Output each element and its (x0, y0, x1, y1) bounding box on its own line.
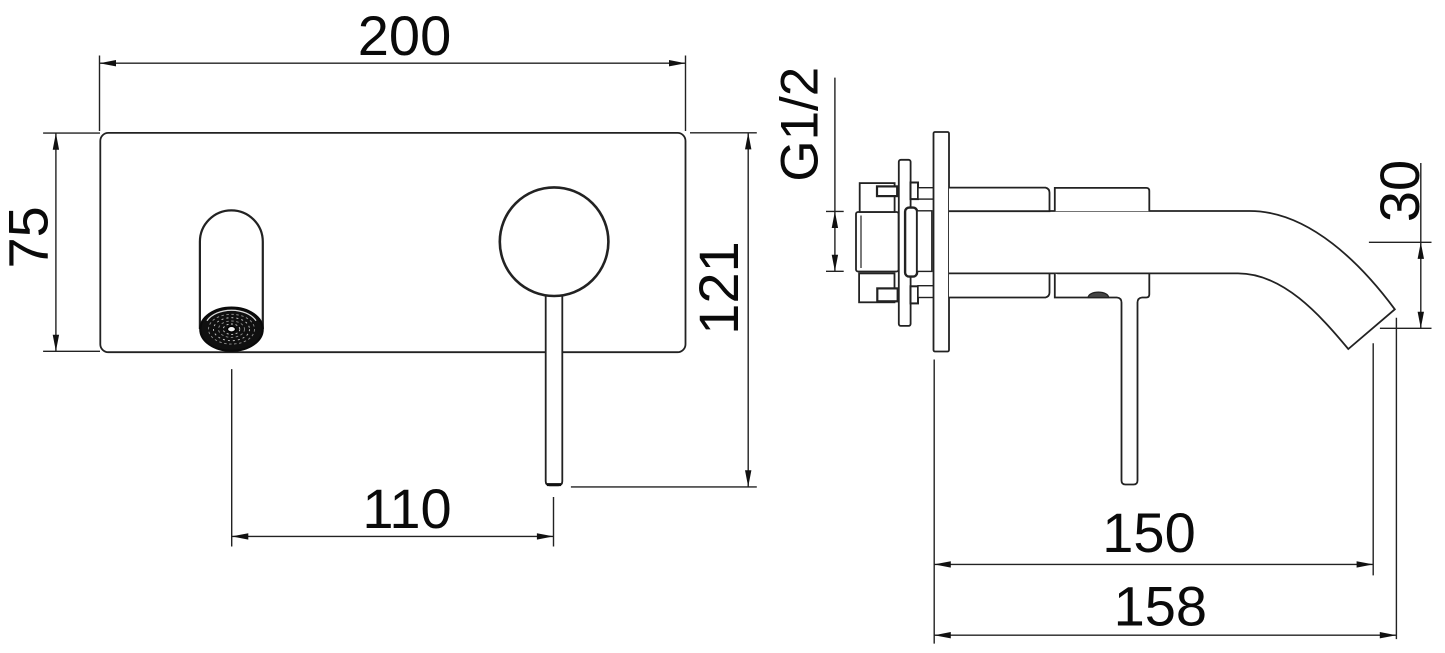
dimension 150: right extension line (1372, 343, 1374, 575)
dimension 158: arrowheads (934, 632, 1396, 638)
svg-text:G1/2: G1/2 (771, 67, 830, 182)
svg-text:200: 200 (358, 4, 451, 67)
side view: bottom bolt bar (918, 286, 934, 298)
dimension 30: ticks (1369, 242, 1432, 328)
dimension 30: arrowheads (1418, 242, 1424, 328)
side view: G1/2 dimension line (834, 78, 836, 272)
dimension 75: extension ticks (43, 133, 100, 351)
svg-text:150: 150 (1102, 501, 1195, 564)
dimension 110: arrowheads (232, 533, 554, 539)
side view: top bolt slot (877, 186, 897, 196)
dimension 75: arrowheads (53, 133, 59, 351)
side view: valve body lower (1055, 273, 1150, 297)
side view: top tab (911, 183, 919, 200)
svg-text:110: 110 (362, 477, 451, 540)
side view: bracket bottom arm (859, 273, 894, 302)
side view: G1/2 ticks (826, 211, 844, 271)
front view: spout body (200, 210, 263, 329)
side view: housing section 1 lower (949, 273, 1050, 297)
dimension 150/158: left extension line (933, 360, 935, 644)
svg-text:75: 75 (0, 206, 60, 268)
side view: spout tube with bend (949, 211, 1395, 349)
side view: thin mounting plate (899, 160, 911, 326)
dimension 200: dimension line (99, 62, 685, 64)
front view: handle lever stick (546, 295, 563, 485)
front view: wall plate (100, 133, 685, 352)
front view: aerator (200, 308, 262, 351)
side view: bottom tab (911, 286, 919, 303)
side view: housing section 1 upper (949, 188, 1050, 212)
side view: G1/2 nipple (856, 212, 899, 272)
dimension 30: dimension line (1420, 163, 1422, 328)
dimension 110: dimension line (232, 535, 554, 537)
side view: escutcheon wall plate (934, 132, 950, 352)
dimension 200: arrowheads (99, 60, 685, 66)
side view: top bolt bar (918, 188, 934, 199)
side view: bracket top arm (860, 183, 895, 212)
side view: G1/2 arrowheads (832, 211, 838, 271)
side view: bottom bolt slot (877, 288, 897, 301)
dimension 150: arrowheads (934, 561, 1373, 567)
dimension 121: extension lines (571, 133, 757, 487)
dimension 121: dimension line (747, 133, 749, 487)
svg-text:30: 30 (1368, 160, 1431, 222)
side view: spacer (917, 211, 932, 272)
dimension 110: extension lines (232, 369, 554, 546)
dimension 158: right extension line (1395, 318, 1397, 639)
front view: handle disc (500, 187, 609, 296)
dimension 150: dimension line (934, 563, 1373, 565)
side view: lever stick (1117, 298, 1142, 485)
side view: valve body upper (1055, 188, 1150, 211)
side view: cartridge dome (1088, 292, 1108, 297)
dimension 121: arrowheads (745, 133, 751, 487)
dimension 200: extension lines (100, 56, 686, 132)
svg-text:121: 121 (687, 241, 750, 334)
dimension 158: dimension line (934, 634, 1396, 636)
side view: washer (905, 208, 917, 277)
dimension 75: dimension line (55, 133, 57, 351)
svg-text:158: 158 (1114, 575, 1207, 638)
